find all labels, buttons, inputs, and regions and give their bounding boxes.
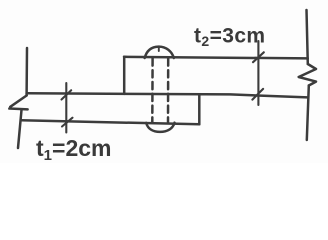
rivet top head dome [145, 47, 174, 58]
right break zigzag [299, 64, 316, 86]
interface line (top of plate 1 / bottom of plate 2) [27, 93, 308, 97]
t1 dimension line [65, 83, 67, 133]
left break line (plate 1 left end) [25, 48, 28, 96]
left break zigzag [9, 96, 27, 110]
rivet bottom head dome [146, 123, 174, 132]
t1 upper tick slash [62, 90, 72, 99]
plate 2 left edge [123, 57, 126, 94]
t2 lower tick slash [252, 89, 263, 100]
t2 dimension line [257, 41, 259, 105]
plate 1 bottom edge [21, 120, 199, 124]
right break line lower segment [307, 86, 309, 141]
label t1 = 2cm [36, 135, 111, 164]
left break line lower segment [18, 110, 22, 148]
t2 upper tick slash [253, 52, 264, 62]
plate 1 right edge [198, 95, 201, 124]
plate 2 top edge [124, 57, 308, 59]
right break line (plate 2 right end) [307, 10, 308, 64]
rivet shank hidden line right [167, 58, 170, 122]
t1 lower tick slash [62, 118, 73, 127]
rivet top head center tick [158, 48, 160, 51]
label t2 = 3cm [194, 25, 266, 50]
rivet shank hidden line left [151, 58, 154, 122]
